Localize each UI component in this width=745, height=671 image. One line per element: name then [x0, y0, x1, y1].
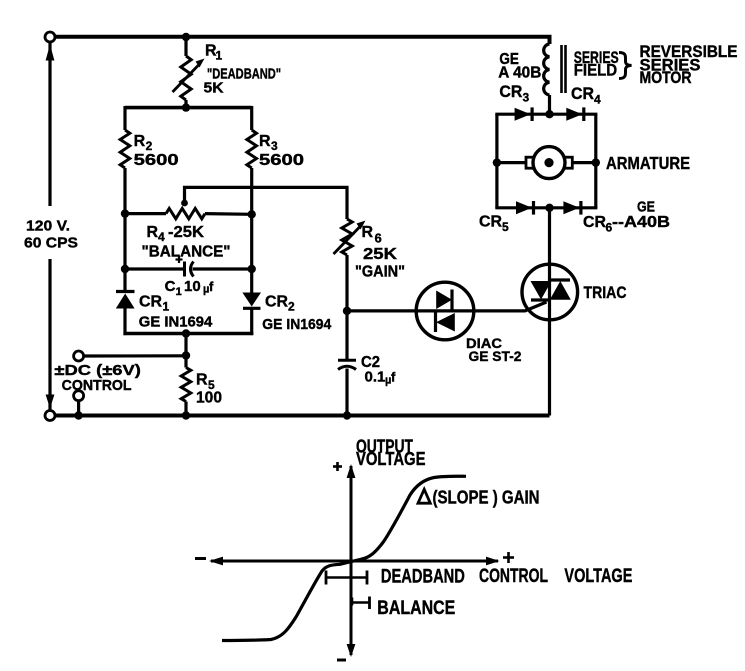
graph y-axis — [350, 466, 353, 655]
svg-text:--A40B: --A40B — [612, 214, 670, 231]
node control at bottom bus — [74, 411, 82, 419]
wire C1 row right — [193, 267, 252, 270]
svg-text:R: R — [362, 224, 374, 241]
svg-text:FIELD: FIELD — [574, 62, 618, 80]
terminal DC control upper — [74, 351, 84, 361]
diode CR5 in bridge — [516, 201, 532, 214]
svg-text:TRIAC: TRIAC — [584, 283, 627, 302]
svg-text:-25K: -25K — [168, 224, 204, 241]
svg-text:R: R — [259, 133, 271, 150]
svg-text:3: 3 — [523, 91, 530, 105]
svg-text:DEADBAND: DEADBAND — [381, 566, 465, 588]
svg-text:0.1: 0.1 — [365, 369, 386, 386]
wire R2 bottom to balance row — [123, 168, 126, 293]
wire top bus — [55, 37, 550, 44]
wire bridge top edge — [495, 113, 597, 116]
node top bus / R1 — [182, 33, 190, 41]
svg-text:100: 100 — [196, 390, 222, 407]
svg-text:GE IN1694: GE IN1694 — [262, 316, 332, 333]
svg-text:2: 2 — [146, 139, 153, 153]
arrow of potentiometer R1 — [173, 64, 201, 93]
node R4 right — [248, 210, 256, 218]
wire C1 row left — [125, 267, 183, 270]
node C1 right — [248, 265, 256, 273]
wire diode box bottom — [123, 332, 253, 336]
diode CR3 in bridge — [515, 108, 531, 121]
svg-text:CR: CR — [583, 214, 606, 231]
wire R3 bottom through balance row — [250, 168, 253, 294]
wire bottom bus — [55, 414, 550, 418]
terminal top-left (120V line) — [45, 32, 55, 42]
node R4 left — [121, 209, 129, 217]
svg-text:A 40B: A 40B — [498, 65, 541, 82]
svg-text:MOTOR: MOTOR — [640, 69, 692, 87]
svg-text:2: 2 — [288, 300, 295, 314]
diac circle — [416, 282, 474, 340]
svg-text:CONTROL: CONTROL — [479, 565, 548, 587]
deadband bracket — [326, 576, 367, 579]
svg-text:1: 1 — [176, 286, 182, 298]
node below R1 — [182, 103, 190, 111]
resistor R1 zigzag — [181, 56, 191, 100]
plus sign of C1 — [176, 258, 183, 260]
svg-text:(SLOPE ) GAIN: (SLOPE ) GAIN — [433, 488, 540, 508]
svg-text:C: C — [165, 278, 176, 295]
diode CR2 — [242, 293, 261, 307]
wire CR1 bottom — [123, 309, 126, 336]
svg-text:25K: 25K — [363, 246, 398, 263]
capacitor C2 plates — [338, 359, 356, 362]
svg-text:R: R — [147, 224, 159, 241]
svg-text:CR: CR — [139, 294, 162, 311]
graph x-axis — [211, 560, 498, 563]
wire bridge bottom edge — [495, 206, 597, 209]
wire R4 right lead — [205, 212, 252, 216]
node C1 left — [121, 265, 129, 273]
resistor R6 zigzag — [342, 219, 352, 255]
arrow down on 120V line — [46, 395, 55, 409]
wiper of R4 with dot and rail to R6 — [185, 187, 348, 219]
svg-text:VOLTAGE: VOLTAGE — [356, 449, 426, 469]
node bridge bottom center — [545, 204, 553, 212]
core bars of series field — [560, 45, 563, 93]
wire row below R1 — [125, 106, 252, 110]
plus sign top of y-axis — [333, 465, 342, 468]
wire R6 node to DIAC and TRIAC gate — [347, 302, 547, 311]
diac upper triangle — [436, 291, 452, 310]
wire R5 bottom lead — [184, 402, 187, 416]
terminal DC control lower — [74, 391, 84, 401]
wire control upper to R5 node — [84, 354, 186, 357]
wire motor bridge to bottom bus through TRIAC — [548, 208, 551, 416]
delta slope gain label — [418, 489, 430, 503]
wire bridge right edge — [594, 114, 597, 208]
svg-text:5: 5 — [502, 220, 509, 234]
plus sign right of x-axis — [503, 556, 514, 559]
triac bottom bar — [531, 298, 551, 301]
svg-text:"BALANCE": "BALANCE" — [142, 244, 231, 261]
svg-text:CR: CR — [499, 83, 522, 101]
node R6 / DIAC branch — [343, 307, 351, 315]
wire bridge left edge — [495, 114, 498, 208]
wire R1 bottom lead — [184, 100, 187, 108]
node R5 at bottom bus — [182, 411, 190, 419]
arrow of potentiometer R6 — [334, 226, 362, 255]
diac lower triangle — [436, 313, 455, 332]
node bridge left — [493, 158, 501, 166]
diac upper bar — [450, 290, 453, 310]
svg-text:4: 4 — [594, 93, 601, 107]
svg-text:3: 3 — [271, 139, 278, 153]
wire coil to bridge top — [548, 95, 551, 114]
wire armature left lead — [497, 161, 527, 164]
svg-text:GE ST-2: GE ST-2 — [469, 348, 522, 364]
node box bottom center — [182, 329, 190, 337]
minus sign left of x-axis — [195, 557, 206, 560]
svg-text:1: 1 — [216, 49, 223, 63]
diode CR6 in bridge — [563, 201, 579, 214]
svg-text:CR: CR — [571, 85, 594, 103]
triac left triangle — [531, 281, 552, 300]
svg-text:6: 6 — [375, 231, 382, 246]
svg-text:CR: CR — [479, 214, 502, 231]
wire R6 bottom lead — [345, 255, 348, 360]
wire R3 top lead — [250, 106, 253, 130]
svg-text:5600: 5600 — [259, 152, 304, 169]
svg-text:ARMATURE: ARMATURE — [606, 153, 690, 173]
transfer curve — [222, 476, 466, 640]
resistor R5 zigzag — [181, 368, 191, 402]
svg-text:5600: 5600 — [134, 152, 179, 169]
diode CR4 in bridge — [566, 108, 582, 121]
diode CR1 — [116, 290, 135, 293]
wire R1 top lead — [184, 37, 187, 56]
svg-text:60 CPS: 60 CPS — [24, 235, 78, 252]
wire 120V left rail upper — [48, 42, 51, 206]
triac right triangle — [550, 281, 571, 300]
wire 120V left rail lower — [48, 259, 51, 411]
svg-text:R: R — [134, 133, 146, 150]
capacitor C1 plates — [183, 262, 186, 277]
wire R4 left lead — [125, 212, 166, 215]
svg-text:10: 10 — [184, 278, 201, 295]
svg-text:GE: GE — [637, 199, 655, 216]
svg-text:f: f — [209, 279, 214, 294]
node bridge top center — [545, 110, 553, 118]
svg-text:120 V.: 120 V. — [26, 218, 70, 235]
wire R2 top lead — [123, 106, 126, 130]
arrow up on 120V line — [46, 45, 55, 61]
armature motor symbol — [526, 157, 535, 168]
svg-text:CR: CR — [265, 294, 288, 311]
terminal bottom-left (120V line) — [45, 411, 55, 421]
triac top bar — [551, 278, 570, 281]
triac circle — [522, 264, 578, 320]
node C2 at bottom bus — [343, 411, 351, 419]
wire CR2 bottom — [250, 308, 253, 335]
svg-text:"GAIN": "GAIN" — [355, 264, 405, 281]
wire box bottom to control node — [184, 334, 187, 368]
minus sign below y-axis — [337, 659, 346, 662]
node control junction — [182, 351, 190, 359]
svg-text:R: R — [196, 372, 208, 389]
svg-text:VOLTAGE: VOLTAGE — [564, 565, 632, 587]
node bridge right — [592, 158, 600, 166]
resistor R4 zigzag — [166, 208, 205, 218]
svg-text:f: f — [391, 370, 396, 385]
svg-text:GE IN1694: GE IN1694 — [139, 314, 213, 331]
svg-text:BALANCE: BALANCE — [377, 598, 455, 619]
inductor series field coil — [544, 44, 550, 95]
svg-text:CONTROL: CONTROL — [62, 377, 132, 394]
brace for series field — [619, 53, 632, 79]
diac lower bar — [434, 313, 437, 333]
svg-text:5K: 5K — [204, 80, 224, 97]
resistor R3 zigzag — [247, 130, 257, 168]
svg-text:4: 4 — [158, 230, 165, 244]
svg-text:1: 1 — [163, 300, 170, 314]
wire C2 bottom lead — [345, 369, 348, 416]
resistor R2 zigzag — [120, 130, 130, 168]
wire armature right lead — [572, 161, 596, 164]
wire control lower to bottom bus — [77, 401, 80, 416]
balance bracket — [352, 601, 370, 604]
